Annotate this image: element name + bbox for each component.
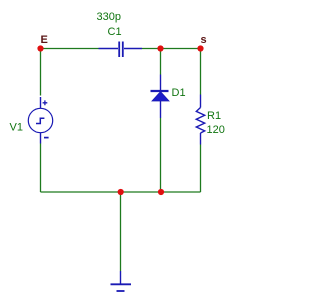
wire top-left (E to C1) bbox=[41, 48, 99, 50]
diode D1 bbox=[151, 75, 170, 119]
wire diode branch lower bbox=[160, 118, 162, 192]
svg-text:E: E bbox=[41, 34, 48, 46]
junction dot (ground branch, bottom) bbox=[118, 189, 124, 195]
capacitor C1 bbox=[99, 42, 143, 58]
resistor R1 bbox=[196, 95, 204, 145]
wire diode branch upper bbox=[160, 49, 162, 75]
wire right lower (R1 down to bottom rail) bbox=[200, 145, 202, 193]
svg-text:D1: D1 bbox=[172, 87, 186, 99]
wire bottom rail bbox=[41, 191, 201, 193]
svg-text:V1: V1 bbox=[10, 122, 23, 134]
ground bbox=[111, 271, 132, 291]
node s (junction dot) bbox=[197, 45, 203, 51]
node E (junction dot) bbox=[37, 45, 43, 51]
wire ground branch bbox=[120, 192, 122, 271]
svg-text:C1: C1 bbox=[108, 26, 122, 38]
junction dot (diode branch, top) bbox=[157, 45, 163, 51]
svg-text:R1: R1 bbox=[207, 110, 221, 122]
wire left lower (V1 down to bottom rail) bbox=[40, 144, 42, 193]
svg-text:120: 120 bbox=[207, 124, 225, 136]
svg-text:330p: 330p bbox=[97, 11, 121, 23]
wire left upper (E down to V1) bbox=[40, 49, 42, 96]
wire top-right (C1 to s) bbox=[142, 48, 201, 50]
svg-text:s: s bbox=[201, 34, 207, 46]
junction dot (diode branch, bottom) bbox=[158, 189, 164, 195]
wire right upper (s down to R1) bbox=[200, 49, 202, 95]
voltage source V1 bbox=[28, 97, 52, 144]
